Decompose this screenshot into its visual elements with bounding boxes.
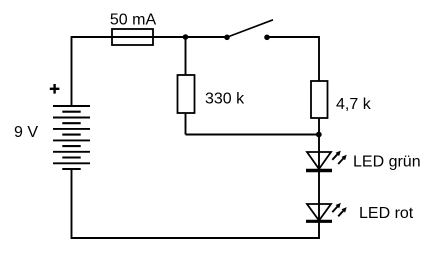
wire top rail left segment: [72, 36, 228, 38]
svg-text:330 k: 330 k: [205, 91, 245, 108]
wire left rail lower: [71, 169, 73, 239]
svg-text:9 V: 9 V: [14, 124, 38, 141]
node junction at fuse output: [183, 34, 189, 40]
wire bottom rail: [71, 237, 320, 239]
LED gruen D1: [306, 151, 347, 171]
LED rot D2: [306, 203, 347, 221]
svg-text:LED grün: LED grün: [353, 154, 421, 171]
wire left rail upper: [71, 36, 73, 106]
svg-text:50 mA: 50 mA: [110, 12, 157, 29]
resistor 330k: [178, 75, 195, 113]
resistor 4.7k: [311, 81, 328, 118]
wire right rail lower: [318, 118, 320, 239]
wire middle-to-right horizontal: [186, 134, 320, 136]
fuse 50 mA: [112, 29, 153, 45]
wire middle branch vertical: [185, 37, 187, 135]
svg-text:4,7 k: 4,7 k: [336, 96, 372, 113]
node junction below 4.7k: [316, 132, 322, 138]
wire top rail right segment: [267, 36, 319, 38]
battery 9V: [53, 106, 90, 169]
svg-text:LED rot: LED rot: [359, 205, 414, 222]
wire right rail upper: [318, 36, 320, 81]
label battery plus: [50, 84, 60, 94]
switch S1: [224, 20, 273, 40]
